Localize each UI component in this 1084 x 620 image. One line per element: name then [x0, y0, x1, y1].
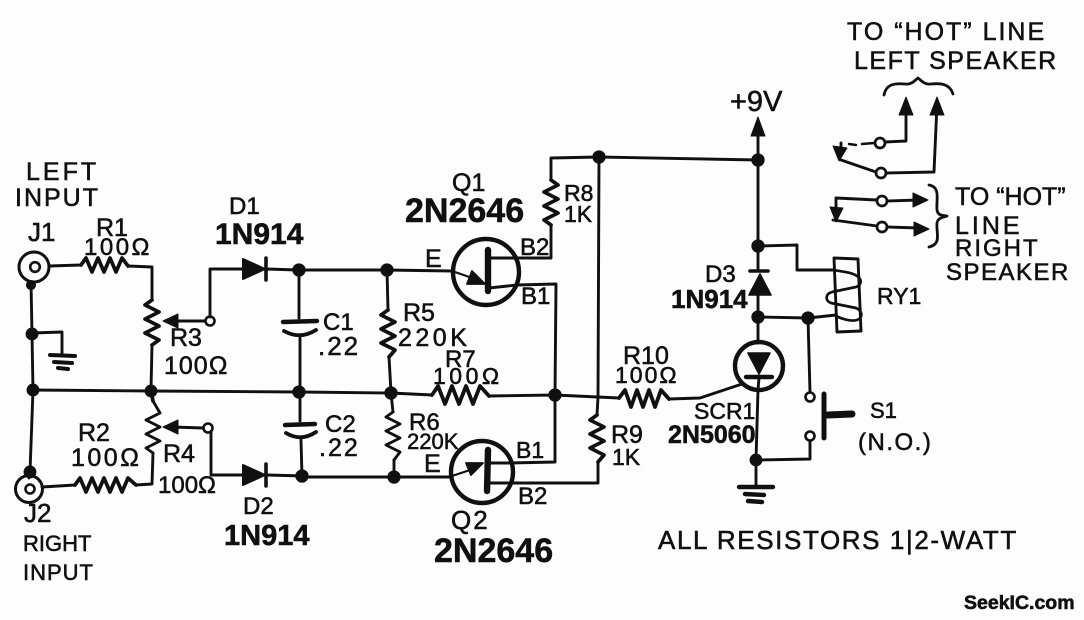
svg-text:RIGHT: RIGHT	[23, 531, 91, 556]
wire D1 to node	[267, 269, 298, 270]
svg-text:S1: S1	[870, 398, 897, 423]
wiper R3 arrow	[163, 314, 215, 328]
wire Q1 B1 down	[489, 284, 556, 463]
relay RY1 coil	[827, 258, 862, 332]
svg-text:R4: R4	[163, 440, 195, 468]
node J2 sleeve	[25, 467, 35, 477]
diode D2	[243, 464, 266, 486]
svg-text:TO “HOT” LINE: TO “HOT” LINE	[847, 18, 1046, 46]
node S1 top tie	[803, 313, 813, 323]
ground (input)	[50, 355, 75, 369]
node R3 bus	[146, 386, 156, 396]
svg-text:B2: B2	[518, 483, 547, 510]
svg-text:100Ω: 100Ω	[158, 472, 216, 499]
node R6 bottom	[389, 472, 399, 482]
wire R10 to SCR gate	[669, 384, 742, 399]
wire R7 to R10	[489, 395, 619, 398]
wire Q1 B2 to R8	[490, 225, 551, 258]
svg-text:100Ω: 100Ω	[615, 362, 679, 388]
resistor R3	[145, 300, 159, 345]
contact A arm	[833, 143, 876, 172]
svg-text:B2: B2	[520, 234, 549, 261]
svg-text:R5: R5	[403, 299, 435, 327]
contact A dashes	[849, 143, 874, 145]
node bus left corner	[28, 385, 38, 395]
wire D3 to SCR	[757, 295, 760, 343]
svg-text:100Ω: 100Ω	[71, 444, 141, 472]
wire J1 sleeve down	[31, 282, 33, 390]
svg-text:Q2: Q2	[451, 505, 490, 535]
wire Q2 B1	[489, 462, 509, 465]
capacitor C2	[285, 392, 316, 477]
capacitor C1	[283, 270, 317, 392]
resistor R1	[81, 258, 128, 272]
node R5 top	[382, 265, 392, 275]
wire R1 to R3 top	[128, 266, 152, 300]
svg-text:RIGHT: RIGHT	[955, 235, 1040, 262]
wire +9V drop to R9	[597, 157, 599, 415]
svg-text:B1: B1	[516, 437, 544, 463]
resistor R6	[386, 393, 400, 477]
wire R4 top to bus	[151, 391, 153, 401]
wire to ground	[32, 332, 62, 353]
svg-text:R2: R2	[78, 419, 110, 447]
svg-text:INPUT: INPUT	[23, 560, 94, 585]
svg-text:1K: 1K	[564, 201, 593, 227]
arrow A up right	[930, 97, 944, 115]
contact A2	[876, 104, 937, 178]
node ground tap	[27, 329, 37, 339]
contact B arm	[830, 198, 877, 226]
transistor Q1	[452, 239, 519, 305]
wire J2 to R2	[42, 485, 75, 487]
node 9V left	[594, 152, 604, 162]
switch S1	[756, 393, 852, 461]
svg-text:INPUT: INPUT	[15, 184, 100, 212]
svg-text:1N914: 1N914	[671, 284, 748, 314]
wire R8 top to +9V bus	[551, 157, 758, 180]
svg-text:RY1: RY1	[877, 283, 921, 309]
node B1 junction	[550, 390, 560, 400]
resistor R7	[432, 386, 489, 404]
svg-text:SPEAKER: SPEAKER	[946, 259, 1070, 286]
svg-text:1N914: 1N914	[215, 218, 304, 251]
svg-text:2N2646: 2N2646	[405, 192, 524, 230]
resistor R2	[75, 478, 136, 492]
svg-text:R3: R3	[170, 324, 202, 352]
svg-text:D2: D2	[243, 493, 274, 520]
svg-text:.22: .22	[319, 434, 360, 462]
wire S1 branch	[808, 318, 810, 392]
wire Q2 B2 segment	[489, 482, 510, 485]
node C1 top	[294, 265, 304, 275]
svg-text:E: E	[424, 450, 441, 478]
wire ground bus	[33, 390, 432, 395]
brace right speaker	[929, 185, 947, 247]
wire relay top branch	[758, 245, 833, 270]
ground (SCR)	[739, 487, 773, 502]
arrow B right bottom	[914, 222, 929, 236]
wire J1 to R1	[49, 265, 81, 266]
node SCR anode	[753, 312, 763, 322]
resistor R8	[544, 180, 558, 225]
svg-text:2N2646: 2N2646	[434, 532, 553, 570]
contact B2	[877, 222, 919, 232]
svg-text:100Ω: 100Ω	[84, 234, 152, 261]
svg-text:E: E	[425, 245, 442, 273]
svg-text:TO “HOT”: TO “HOT”	[955, 183, 1066, 211]
diode D3	[749, 271, 771, 295]
svg-text:.22: .22	[318, 331, 360, 361]
resistor R9	[590, 415, 604, 462]
svg-text:100Ω: 100Ω	[433, 363, 503, 389]
svg-text:D1: D1	[229, 193, 260, 220]
transistor Q2	[449, 441, 513, 503]
wiper R4 arrow	[163, 420, 213, 434]
svg-text:+9V: +9V	[730, 86, 783, 118]
contact A1	[875, 104, 906, 148]
wire E line Q2	[304, 476, 449, 479]
svg-text:B1: B1	[521, 283, 550, 310]
svg-text:(N.O.): (N.O.)	[858, 429, 932, 456]
resistor R10	[619, 390, 669, 407]
node C1 bottom	[294, 387, 304, 397]
resistor R5	[381, 270, 395, 392]
SCR1	[735, 342, 783, 390]
arrow A up left	[899, 97, 913, 115]
wire E line Q1	[299, 270, 452, 271]
wire R2 to R4 bottom	[136, 453, 153, 485]
brace left speaker	[884, 78, 953, 95]
wire relay bottom branch	[758, 315, 836, 318]
jack J1	[19, 252, 49, 282]
svg-text:100Ω: 100Ω	[164, 352, 228, 380]
svg-text:1N914: 1N914	[224, 520, 309, 552]
svg-text:LEFT: LEFT	[26, 158, 99, 186]
wire +9V main vertical	[757, 124, 760, 271]
node relay top	[753, 241, 763, 251]
arrow B right top	[913, 193, 928, 207]
contact B1	[877, 196, 919, 206]
svg-text:J1: J1	[28, 217, 55, 247]
svg-text:SeekIC.com: SeekIC.com	[964, 592, 1075, 614]
node S1 bottom tie	[751, 455, 761, 465]
svg-text:2N5060: 2N5060	[668, 421, 756, 449]
arrow +9V	[751, 117, 765, 136]
wire R9 bottom to Q2 B2	[510, 462, 598, 483]
svg-text:1K: 1K	[612, 444, 641, 470]
node C2 bottom	[297, 471, 307, 481]
wire SCR cathode to ground	[756, 390, 758, 486]
wire D2 to node	[267, 475, 304, 476]
wire R3 bottom to bus	[151, 345, 152, 390]
svg-text:LEFT SPEAKER: LEFT SPEAKER	[854, 47, 1058, 75]
wire wiper R3 to D1	[210, 269, 242, 317]
node 9V right	[753, 155, 763, 165]
diode D1	[243, 258, 266, 280]
wire wiper R4 to D2	[211, 432, 242, 475]
node J1 sleeve	[27, 281, 34, 288]
svg-text:ALL RESISTORS 1|2-WATT: ALL RESISTORS 1|2-WATT	[658, 525, 1018, 555]
resistor R4	[146, 401, 160, 453]
node R5 bottom	[386, 388, 396, 398]
jack J2	[16, 476, 43, 503]
wire sleeve to J2	[29, 390, 33, 478]
svg-text:J2: J2	[24, 498, 51, 528]
